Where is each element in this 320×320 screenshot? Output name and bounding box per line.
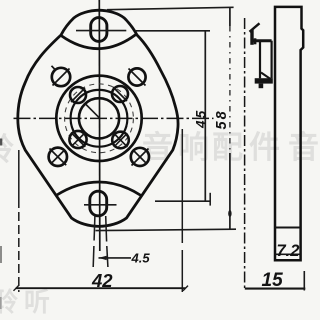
watermark bottom-left text xyxy=(0,287,50,317)
svg-text:音: 音 xyxy=(288,130,319,165)
svg-text:45: 45 xyxy=(193,109,208,129)
center hole keyway slash xyxy=(86,105,99,118)
side view centerline xyxy=(244,18,246,290)
pin hole P2 top-right xyxy=(112,86,128,102)
dimension 45 line xyxy=(204,31,206,201)
dimension 42 right extension line xyxy=(181,129,183,292)
side view chassis line xyxy=(275,227,301,229)
side view lug line xyxy=(275,253,301,255)
svg-text:58: 58 xyxy=(214,109,230,129)
bottom oblong mounting hole xyxy=(90,191,107,216)
center hole circle xyxy=(79,98,119,138)
mounting clip spring xyxy=(250,23,273,88)
svg-text:15: 15 xyxy=(262,270,284,291)
dimension 58 bottom extension line xyxy=(96,229,237,230)
slot width extension line left xyxy=(93,216,95,267)
svg-text:音: 音 xyxy=(142,130,173,165)
pin hole P4 bottom-right xyxy=(112,132,129,149)
top oblong mounting hole xyxy=(91,18,107,42)
bottom boss arc xyxy=(56,182,141,196)
pin pitch circle dashed xyxy=(65,84,134,153)
svg-text:7.2: 7.2 xyxy=(277,242,300,260)
front view vertical centerline xyxy=(98,0,101,251)
corner hole A top-left xyxy=(52,66,71,86)
corner hole C bottom-left xyxy=(49,148,67,166)
dimension 58 line xyxy=(228,8,231,230)
dimension 15 line xyxy=(245,288,305,290)
boss ring circle xyxy=(71,90,128,147)
svg-text:42: 42 xyxy=(91,270,113,291)
watermark text row xyxy=(0,130,319,167)
top hole crosshair xyxy=(76,30,126,32)
pin hole P1 top-left xyxy=(70,87,86,103)
outer flange circle xyxy=(56,76,141,161)
svg-text:听: 听 xyxy=(24,287,50,317)
dimension 42 line xyxy=(14,286,189,291)
socket plate outline xyxy=(18,10,178,226)
svg-text:配: 配 xyxy=(212,130,243,165)
extension end tick xyxy=(209,193,211,206)
dimension 58 top extension line xyxy=(107,7,234,9)
scan edge smudges xyxy=(0,139,2,310)
bottom hole extension line xyxy=(155,200,211,202)
corner hole B top-right xyxy=(128,68,145,85)
corner hole D bottom-right xyxy=(131,148,149,166)
dimension 4.5 leader xyxy=(99,256,132,260)
svg-text:4.5: 4.5 xyxy=(131,250,151,265)
dimension 15 extension line xyxy=(303,271,305,291)
front view horizontal centerline xyxy=(14,117,214,119)
slot width extension line right xyxy=(106,216,108,267)
dimension 42 left extension line xyxy=(18,150,20,292)
pin hole P3 bottom-left xyxy=(69,131,86,148)
svg-text:聆: 聆 xyxy=(0,287,18,317)
bottom hole crosshair xyxy=(84,204,117,206)
top hole extension line xyxy=(136,30,210,32)
top boss arc xyxy=(61,34,137,49)
side view body outline xyxy=(275,7,303,260)
svg-text:聆: 聆 xyxy=(0,132,14,167)
